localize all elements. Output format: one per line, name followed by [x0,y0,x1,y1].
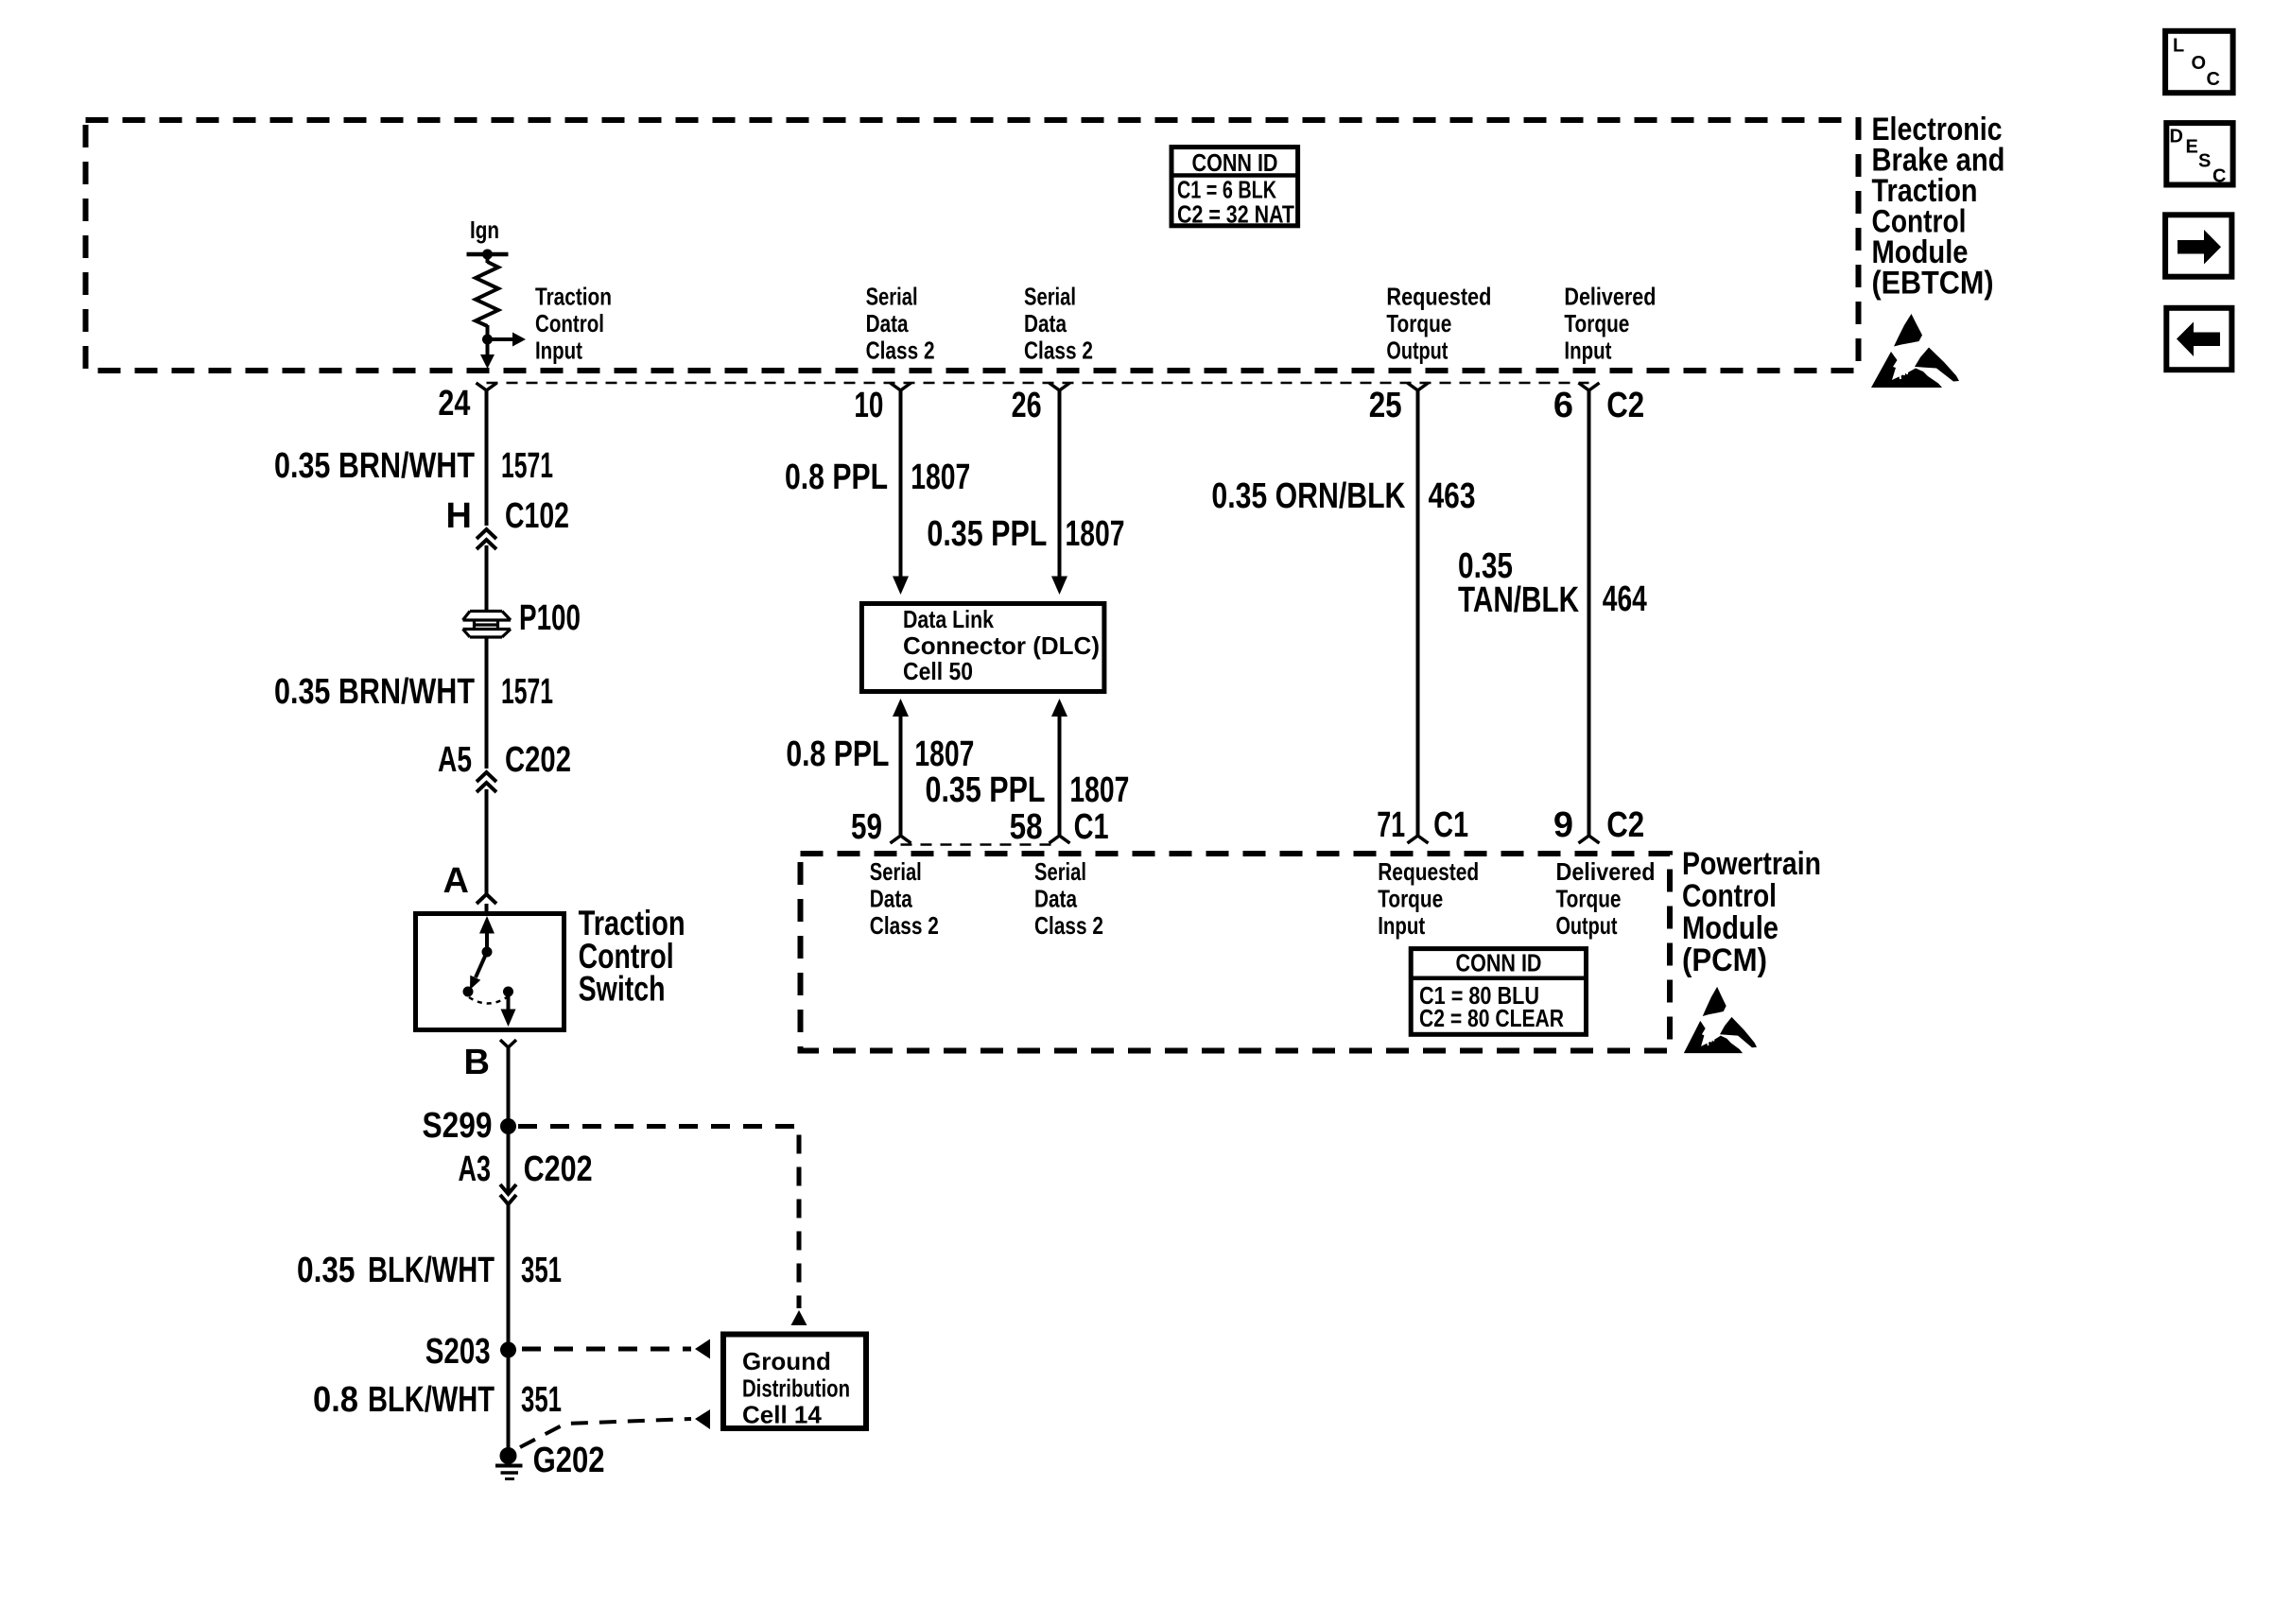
switch internal up arrow [485,933,489,952]
EBTCM ESD symbol [1871,314,1959,388]
switch internal down arrow [507,992,511,1010]
svg-text:(PCM): (PCM) [1682,942,1767,978]
svg-text:G202: G202 [533,1441,605,1480]
svg-text:Input: Input [535,337,582,365]
svg-text:Ign: Ign [470,216,499,244]
svg-text:25: 25 [1369,386,1402,425]
svg-text:D: D [2170,127,2183,147]
svg-text:Torque: Torque [1564,309,1629,337]
svg-text:463: 463 [1429,476,1476,516]
switch box [416,914,564,1030]
label Traction Control Input [535,283,612,365]
svg-text:Control: Control [535,309,604,337]
PCM title: Powertrain Control Module (PCM) [1682,846,1821,978]
Ground Distribution reference box [723,1335,866,1429]
svg-text:C2: C2 [1606,805,1644,845]
svg-text:Data: Data [1024,309,1067,337]
PCM module dashed box [801,854,1671,1051]
svg-text:1807: 1807 [1069,770,1129,810]
svg-text:58: 58 [1010,807,1043,847]
svg-text:Requested: Requested [1386,283,1491,311]
svg-text:Output: Output [1556,911,1618,940]
svg-text:Serial: Serial [1024,283,1076,311]
svg-text:Class 2: Class 2 [1024,337,1093,365]
next-page arrow box [2165,215,2231,276]
EBTCM module dashed box [86,120,1859,371]
svg-text:26: 26 [1012,386,1042,425]
svg-text:Requested: Requested [1378,857,1479,886]
svg-text:1571: 1571 [501,446,553,486]
svg-text:Cell 50: Cell 50 [903,657,973,685]
wire P100 to C202 [485,637,489,769]
pin A chevron [477,894,496,904]
wire S203 to G202 [507,1350,511,1448]
pin 6 fork [1579,383,1600,390]
wire pin 25 to PCM pin 71 [1416,389,1420,836]
PCM CONN ID box [1411,949,1586,1035]
svg-text:Class 2: Class 2 [1034,911,1103,940]
pin 25 fork [1408,383,1429,390]
svg-text:C2 = 32 NAT: C2 = 32 NAT [1177,200,1294,229]
svg-text:C2 = 80 CLEAR: C2 = 80 CLEAR [1419,1004,1564,1032]
label Requested Torque Output (pin 25) [1386,283,1491,365]
svg-text:464: 464 [1603,579,1647,619]
wire pin 10 to DLC with arrow [899,390,903,577]
splice S299 [500,1118,516,1134]
svg-text:C: C [2207,69,2220,90]
svg-text:59: 59 [851,807,882,847]
pin 26 fork [1050,383,1070,390]
svg-text:0.35 PPL: 0.35 PPL [927,514,1047,554]
svg-text:C: C [2212,166,2226,187]
svg-text:0.35 BRN/WHT: 0.35 BRN/WHT [274,446,475,486]
label Serial Data Class 2 (pin 58) [1034,857,1103,940]
svg-text:C102: C102 [505,496,569,536]
LOC box [2165,31,2233,93]
stub into switch box [485,904,489,912]
svg-text:0.35 PPL: 0.35 PPL [926,770,1046,810]
wire S299 to C202 [507,1127,511,1195]
dashed line G202 to Ground Distribution [520,1419,691,1447]
svg-text:0.8 PPL: 0.8 PPL [786,734,889,774]
wire pin B to S299 [507,1047,511,1126]
svg-text:P100: P100 [519,598,581,638]
svg-text:S: S [2198,151,2211,172]
label Traction Control Switch [579,904,685,1009]
svg-text:Class 2: Class 2 [870,911,939,940]
pass-through grommet P100 [463,612,512,638]
wire pin 6 to PCM pin 9 [1588,389,1591,836]
svg-text:CONN ID: CONN ID [1456,949,1542,977]
pin 24 fork [477,383,497,390]
svg-text:1807: 1807 [914,734,974,774]
svg-text:Distribution: Distribution [742,1374,850,1403]
svg-text:Delivered: Delivered [1556,857,1656,886]
arrow up into dashed line [791,1310,807,1325]
svg-text:24: 24 [438,384,470,423]
svg-text:71: 71 [1377,805,1405,845]
svg-text:C202: C202 [524,1149,593,1189]
wire DLC to pin 58 with up arrow [1051,699,1067,717]
svg-text:Torque: Torque [1556,885,1622,913]
arrow down to pin 24 [486,339,490,356]
wire DLC to pin 59 with up arrow [893,699,909,717]
svg-text:L: L [2173,36,2184,57]
svg-text:S203: S203 [425,1332,491,1372]
junction dot below resistor [482,335,493,345]
svg-text:BLK/WHT: BLK/WHT [368,1251,495,1290]
label Serial Data Class 2 (pin 10) [866,283,935,365]
svg-text:Powertrain: Powertrain [1682,846,1821,882]
svg-text:A3: A3 [459,1149,492,1189]
switch moving arm with arrowhead [476,952,487,977]
svg-text:1571: 1571 [501,672,553,712]
svg-text:0.35 ORN/BLK: 0.35 ORN/BLK [1211,476,1405,516]
svg-text:Traction: Traction [535,283,612,311]
svg-text:351: 351 [521,1380,562,1420]
svg-text:Serial: Serial [1034,857,1086,886]
connector C202 chevrons (down) [500,1184,516,1204]
label Serial Data Class 2 (pin 26) [1024,283,1093,365]
EBTCM connector face thin dashed line [487,382,1589,385]
arrowhead (left) at Ground Distribution [695,1339,710,1359]
wire C202 to S203 [507,1204,511,1350]
svg-text:Switch: Switch [579,970,666,1009]
svg-text:Output: Output [1386,337,1448,365]
wire Ign to resistor [486,254,490,263]
svg-text:Connector (DLC): Connector (DLC) [903,631,1100,660]
switch pin B fork [500,1040,516,1047]
svg-text:Torque: Torque [1378,885,1443,913]
svg-text:6: 6 [1553,386,1573,425]
svg-text:1807: 1807 [1066,514,1125,554]
svg-text:O: O [2192,53,2207,74]
svg-text:CONN ID: CONN ID [1192,148,1278,177]
svg-text:Serial: Serial [870,857,922,886]
svg-text:0.35: 0.35 [297,1251,356,1290]
PCM pin 9 fork [1579,836,1600,843]
label Delivered Torque Input (pin 6) [1564,283,1656,365]
svg-text:0.8 PPL: 0.8 PPL [785,458,888,497]
svg-text:C1: C1 [1074,807,1109,847]
svg-text:C202: C202 [505,740,571,780]
ground G202 [500,1447,517,1464]
svg-text:Delivered: Delivered [1564,283,1656,311]
splice S203 [500,1342,516,1358]
svg-text:Data: Data [1034,885,1077,913]
PCM pin 59 fork [891,836,911,843]
wire pin 24 to C102 [485,390,489,526]
svg-text:Control: Control [1682,878,1777,914]
label Delivered Torque Output (pin 9) [1556,857,1656,940]
svg-text:B: B [464,1043,490,1082]
resistor (Traction Control Input pull-up) [476,262,498,326]
svg-text:Serial: Serial [866,283,918,311]
svg-text:Module: Module [1682,910,1778,946]
arrowhead (left) lower at Ground Distribution [695,1409,710,1429]
svg-text:TAN/BLK: TAN/BLK [1458,580,1579,620]
label Requested Torque Input (pin 71) [1378,857,1479,940]
PCM pin 71 fork [1408,836,1429,843]
svg-text:Torque: Torque [1386,309,1451,337]
svg-text:0.8: 0.8 [313,1380,358,1420]
svg-text:Class 2: Class 2 [866,337,935,365]
svg-text:A5: A5 [438,740,472,780]
dashed line S299 to Ground Distribution [518,1127,799,1309]
label Serial Data Class 2 (pin 59) [870,857,939,940]
connector C102 chevrons [477,529,496,549]
DESC box [2166,123,2232,186]
svg-text:BLK/WHT: BLK/WHT [368,1380,495,1420]
wire pin 26 to DLC with arrow [1058,390,1062,577]
svg-text:C1: C1 [1433,805,1468,845]
svg-text:E: E [2186,137,2198,158]
svg-text:9: 9 [1553,805,1573,845]
svg-text:1807: 1807 [911,458,970,497]
svg-text:C2: C2 [1606,386,1644,425]
switch pivot dot [482,947,493,958]
svg-text:351: 351 [521,1251,562,1290]
Ign supply rail [467,252,509,257]
Data Link Connector box [861,604,1104,692]
svg-text:Data Link: Data Link [903,605,994,633]
PCM pin 58 fork [1050,836,1070,843]
svg-text:0.35 BRN/WHT: 0.35 BRN/WHT [274,672,475,712]
svg-text:(EBTCM): (EBTCM) [1872,266,1994,302]
svg-text:Input: Input [1378,911,1425,940]
EBTCM title: Electronic Brake and Traction Control Module (EBTCM) [1872,112,2005,302]
pin 10 fork [891,383,911,390]
svg-text:A: A [443,861,469,901]
dashed line S203 to Ground Distribution [522,1347,691,1352]
PCM ESD symbol [1684,987,1757,1053]
svg-text:Input: Input [1564,337,1611,365]
switch dashed throw arc [469,997,507,1004]
wire C202 to switch pin A [485,789,489,893]
svg-text:Data: Data [870,885,912,913]
svg-text:H: H [446,496,472,536]
EBTCM CONN ID box [1171,147,1298,229]
connector C202 chevrons [477,772,496,792]
switch contact dots [463,987,474,997]
svg-text:Cell 14: Cell 14 [742,1401,822,1429]
wire resistor to node [486,325,490,339]
arrow to Traction Control Input label [488,337,514,341]
PCM connector face thin dashed line (C1) [901,843,1060,846]
svg-text:10: 10 [854,386,883,425]
svg-text:S299: S299 [423,1106,493,1146]
svg-text:Data: Data [866,309,909,337]
wire C102 to P100 [485,545,489,611]
junction dot at Ign rail [482,250,493,260]
previous-page arrow box [2166,308,2231,370]
svg-text:Ground: Ground [742,1347,831,1375]
